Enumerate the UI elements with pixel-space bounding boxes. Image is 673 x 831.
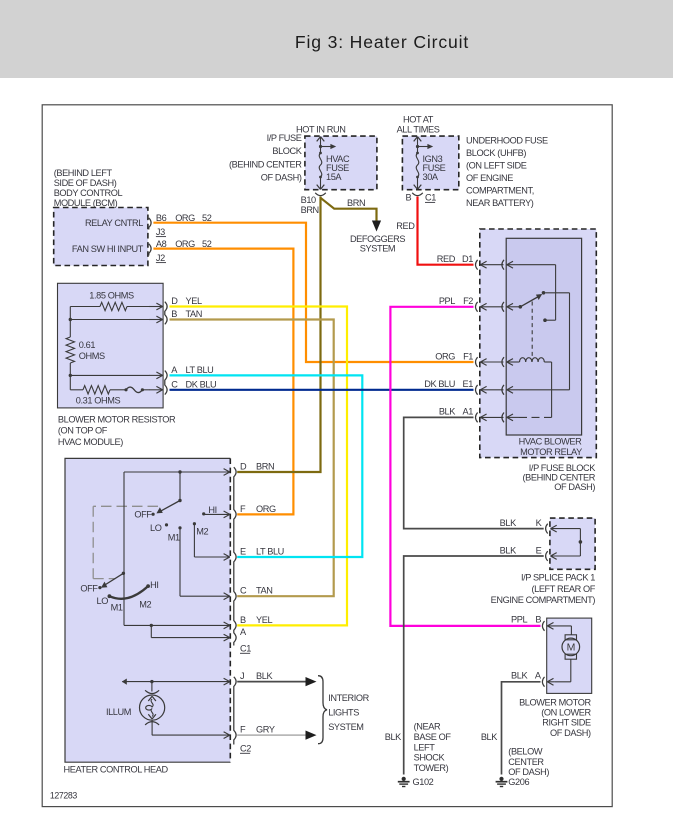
svg-text:Fig 3: Heater Circuit: Fig 3: Heater Circuit xyxy=(295,32,469,52)
svg-text:BLK: BLK xyxy=(385,732,402,742)
svg-text:BODY CONTROL: BODY CONTROL xyxy=(54,188,123,198)
svg-text:J2: J2 xyxy=(156,253,165,263)
svg-text:HI: HI xyxy=(150,580,158,590)
svg-text:PPL: PPL xyxy=(511,615,527,625)
svg-text:B6: B6 xyxy=(156,213,167,223)
svg-text:F1: F1 xyxy=(463,351,473,361)
svg-text:C1: C1 xyxy=(425,193,436,203)
svg-text:BLOCK (UHFB): BLOCK (UHFB) xyxy=(466,148,526,158)
svg-text:OFF: OFF xyxy=(80,584,98,594)
svg-text:BLOWER MOTOR RESISTOR: BLOWER MOTOR RESISTOR xyxy=(58,414,176,424)
svg-text:M2: M2 xyxy=(196,527,208,537)
svg-text:I/P FUSE: I/P FUSE xyxy=(267,133,302,143)
svg-text:LT BLU: LT BLU xyxy=(256,546,284,556)
svg-text:DK BLU: DK BLU xyxy=(424,379,455,389)
svg-text:0.61: 0.61 xyxy=(79,340,96,350)
svg-text:NEAR BATTERY): NEAR BATTERY) xyxy=(466,198,534,208)
svg-text:M: M xyxy=(567,642,575,654)
svg-text:PPL: PPL xyxy=(439,296,455,306)
svg-text:ENGINE COMPARTMENT): ENGINE COMPARTMENT) xyxy=(491,595,596,605)
svg-text:I/P FUSE BLOCK: I/P FUSE BLOCK xyxy=(529,463,596,473)
svg-text:C: C xyxy=(171,379,178,389)
svg-text:MOTOR RELAY: MOTOR RELAY xyxy=(520,447,582,457)
svg-text:SHOCK: SHOCK xyxy=(414,753,446,763)
svg-text:LEFT: LEFT xyxy=(414,742,436,752)
svg-text:TAN: TAN xyxy=(186,309,203,319)
svg-text:OF DASH): OF DASH) xyxy=(554,482,595,492)
svg-text:(LEFT REAR OF: (LEFT REAR OF xyxy=(531,584,595,594)
svg-text:OF ENGINE: OF ENGINE xyxy=(466,173,513,183)
svg-text:DK BLU: DK BLU xyxy=(186,379,217,389)
svg-text:RIGHT SIDE: RIGHT SIDE xyxy=(542,718,591,728)
svg-text:ALL TIMES: ALL TIMES xyxy=(397,125,440,135)
svg-text:B: B xyxy=(406,193,412,203)
svg-text:(ON TOP OF: (ON TOP OF xyxy=(58,426,108,436)
svg-text:J: J xyxy=(240,671,244,681)
svg-text:DEFOGGERS: DEFOGGERS xyxy=(350,234,405,244)
svg-text:GRY: GRY xyxy=(256,725,275,735)
svg-text:HVAC MODULE): HVAC MODULE) xyxy=(58,437,123,447)
svg-text:BRN: BRN xyxy=(256,461,274,471)
svg-text:B: B xyxy=(240,615,246,625)
svg-text:127283: 127283 xyxy=(50,791,77,801)
svg-text:52: 52 xyxy=(202,213,212,223)
svg-text:1.85 OHMS: 1.85 OHMS xyxy=(89,291,134,301)
svg-text:OF DASH): OF DASH) xyxy=(550,728,591,738)
svg-text:C1: C1 xyxy=(240,644,251,654)
svg-text:E1: E1 xyxy=(463,379,474,389)
svg-text:HI: HI xyxy=(208,505,216,515)
svg-text:BLOWER MOTOR: BLOWER MOTOR xyxy=(519,698,591,708)
svg-text:SYSTEM: SYSTEM xyxy=(328,722,363,732)
svg-text:E: E xyxy=(536,546,542,556)
svg-text:B: B xyxy=(535,615,541,625)
svg-text:D1: D1 xyxy=(462,254,473,264)
svg-text:52: 52 xyxy=(202,239,212,249)
svg-text:(ON LEFT SIDE: (ON LEFT SIDE xyxy=(466,161,527,171)
svg-text:J3: J3 xyxy=(156,227,165,237)
svg-text:BLK: BLK xyxy=(500,546,517,556)
svg-text:BLK: BLK xyxy=(511,671,528,681)
svg-text:(BEHIND LEFT: (BEHIND LEFT xyxy=(54,168,113,178)
svg-text:RED: RED xyxy=(396,221,415,231)
svg-text:ORG: ORG xyxy=(175,239,195,249)
svg-text:G102: G102 xyxy=(413,777,434,787)
svg-text:BLK: BLK xyxy=(439,407,456,417)
svg-text:30A: 30A xyxy=(423,172,439,182)
svg-text:15A: 15A xyxy=(326,172,342,182)
svg-text:HEATER CONTROL HEAD: HEATER CONTROL HEAD xyxy=(64,765,169,775)
svg-text:0.31 OHMS: 0.31 OHMS xyxy=(76,396,121,406)
svg-text:A1: A1 xyxy=(463,407,474,417)
svg-text:INTERIOR: INTERIOR xyxy=(328,693,369,703)
svg-text:F2: F2 xyxy=(463,296,473,306)
svg-text:UNDERHOOD FUSE: UNDERHOOD FUSE xyxy=(466,136,548,146)
svg-text:(BEHIND CENTER: (BEHIND CENTER xyxy=(229,160,302,170)
svg-text:A8: A8 xyxy=(156,239,167,249)
svg-text:ILLUM: ILLUM xyxy=(106,707,131,717)
svg-text:BRN: BRN xyxy=(347,198,365,208)
svg-text:OF DASH): OF DASH) xyxy=(261,173,302,183)
svg-text:TAN: TAN xyxy=(256,586,273,596)
svg-text:COMPARTMENT,: COMPARTMENT, xyxy=(466,186,534,196)
svg-text:OF DASH): OF DASH) xyxy=(508,767,549,777)
svg-text:BRN: BRN xyxy=(301,205,319,215)
svg-text:D: D xyxy=(240,461,247,471)
svg-text:(BEHIND CENTER: (BEHIND CENTER xyxy=(523,472,596,482)
svg-text:I/P SPLICE PACK 1: I/P SPLICE PACK 1 xyxy=(521,573,595,583)
svg-text:RED: RED xyxy=(437,254,456,264)
svg-text:BLK: BLK xyxy=(500,518,517,528)
svg-text:G206: G206 xyxy=(508,777,529,787)
svg-text:MODULE (BCM): MODULE (BCM) xyxy=(54,198,118,208)
svg-text:M1: M1 xyxy=(111,603,123,613)
svg-text:M2: M2 xyxy=(139,600,151,610)
svg-text:ORG: ORG xyxy=(175,213,195,223)
svg-text:B10: B10 xyxy=(301,195,316,205)
svg-text:OHMS: OHMS xyxy=(79,351,105,361)
svg-text:LO: LO xyxy=(150,523,162,533)
svg-text:BLOCK: BLOCK xyxy=(272,146,302,156)
svg-text:TOWER): TOWER) xyxy=(414,763,449,773)
svg-text:HVAC BLOWER: HVAC BLOWER xyxy=(519,437,583,447)
svg-text:YEL: YEL xyxy=(186,296,202,306)
svg-text:ORG: ORG xyxy=(435,351,455,361)
svg-text:LIGHTS: LIGHTS xyxy=(328,708,359,718)
svg-text:E: E xyxy=(240,546,246,556)
svg-text:HOT IN RUN: HOT IN RUN xyxy=(296,125,345,135)
svg-text:D: D xyxy=(171,296,178,306)
svg-text:B: B xyxy=(171,309,177,319)
svg-text:FAN SW HI INPUT: FAN SW HI INPUT xyxy=(72,244,144,254)
svg-text:ORG: ORG xyxy=(256,504,276,514)
svg-text:SYSTEM: SYSTEM xyxy=(360,244,395,254)
svg-text:F: F xyxy=(240,725,246,735)
svg-text:SIDE OF DASH): SIDE OF DASH) xyxy=(54,178,117,188)
svg-text:OFF: OFF xyxy=(134,510,152,520)
svg-text:C: C xyxy=(240,586,247,596)
svg-text:F: F xyxy=(240,504,246,514)
svg-text:BASE OF: BASE OF xyxy=(414,732,452,742)
svg-text:C2: C2 xyxy=(240,744,251,754)
svg-text:HOT AT: HOT AT xyxy=(403,115,434,125)
svg-text:LT BLU: LT BLU xyxy=(186,365,214,375)
svg-text:BLK: BLK xyxy=(256,671,273,681)
svg-text:RELAY CNTRL: RELAY CNTRL xyxy=(85,218,143,228)
svg-text:(BELOW: (BELOW xyxy=(508,747,543,757)
svg-text:(ON LOWER: (ON LOWER xyxy=(541,708,591,718)
svg-text:YEL: YEL xyxy=(256,615,272,625)
svg-text:M1: M1 xyxy=(168,533,180,543)
svg-text:LO: LO xyxy=(97,596,109,606)
svg-text:(NEAR: (NEAR xyxy=(414,722,441,732)
svg-text:BLK: BLK xyxy=(481,732,498,742)
svg-text:CENTER: CENTER xyxy=(508,757,544,767)
